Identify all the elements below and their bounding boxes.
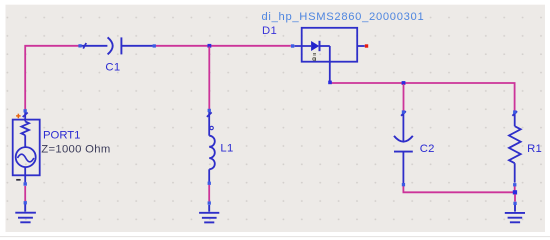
pin square C1 right (153, 44, 156, 47)
wire: D1 output bus to right then down to R1 (331, 83, 515, 111)
svg-text:C1: C1 (105, 61, 120, 73)
plus polarity mark (16, 114, 21, 119)
pin square ground R1 (513, 202, 516, 205)
node junction at top bus (208, 44, 212, 48)
pin square PORT1 bottom (24, 182, 27, 185)
svg-text:L1: L1 (220, 142, 233, 154)
pin square PORT1 top (24, 109, 27, 112)
pin square C2 bottom (402, 183, 405, 186)
ground (L1) (199, 205, 219, 223)
wire: top-left horizontal + left vertical from corner to PORT1 (25, 46, 78, 110)
wire: L1 bottom to ground (208, 185, 210, 202)
wire: C1 right terminal to D1 left pin (through junction) (156, 45, 291, 47)
pin square ground L1 (208, 201, 211, 204)
node junction at bottom right (513, 190, 517, 194)
svg-text:PORT1: PORT1 (43, 129, 80, 141)
pin square R1 bottom (513, 183, 516, 186)
wire: junction to right ground (514, 194, 516, 201)
ground (R1) (505, 205, 525, 222)
pin square C2 top (402, 110, 405, 113)
capacitor C2 (394, 111, 413, 183)
svg-text:Z=1000 Ohm: Z=1000 Ohm (41, 144, 110, 156)
inductor L1 (207, 112, 215, 182)
tiny footprint glyphs inside D1 box (313, 53, 316, 61)
pin square R1 top (513, 110, 516, 113)
pin square L1 top (208, 109, 211, 112)
wire: PORT1 bottom to ground (24, 186, 26, 201)
pin square D1 left (291, 44, 294, 47)
wire: junction down to C2 (403, 84, 405, 111)
ground (PORT1) (15, 204, 36, 223)
pin square D1 bottom endpoint (328, 81, 332, 85)
svg-text:di_hp_HSMS2860_20000301: di_hp_HSMS2860_20000301 (262, 11, 425, 23)
capacitor C1 (82, 37, 153, 54)
wire: R1 bottom short segment (514, 185, 516, 191)
source PORT1 (13, 120, 40, 176)
svg-text:D1: D1 (262, 25, 277, 37)
pin square D1 right (unconnected, red) (365, 44, 368, 47)
svg-text:R1: R1 (527, 143, 542, 155)
svg-text:C2: C2 (420, 143, 435, 155)
diode triangle D1 (311, 41, 319, 51)
pin square L1 bottom (208, 182, 211, 185)
pin square C1 left (78, 44, 81, 47)
wire: junction down to L1 (208, 47, 210, 110)
minus polarity mark (16, 179, 20, 181)
diode U-box D1 (302, 28, 358, 62)
pin square ground PORT1 (24, 201, 27, 204)
node junction at middle bus (402, 81, 406, 85)
wire: C2 bottom to bottom bus to R1 junction (403, 186, 513, 193)
resistor R1 (509, 111, 521, 182)
